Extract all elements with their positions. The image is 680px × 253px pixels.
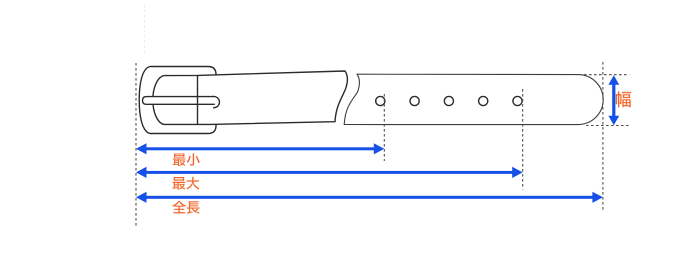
dotted guide line belt top edge (584, 74, 629, 76)
belt hole 5 (513, 96, 522, 105)
label 最大 (maximum) (173, 177, 200, 190)
belt hole 1 (376, 96, 385, 105)
dotted guide line belt bottom edge (586, 125, 629, 127)
belt hole 3 (444, 96, 453, 105)
dotted guide line at belt tip (602, 62, 604, 210)
buckle prong curled tip (213, 96, 220, 107)
dimension arrow minimum (saishou) (136, 143, 384, 154)
buckle center bar (197, 75, 199, 124)
dimension arrow maximum (saidai) (136, 167, 523, 178)
label 幅 (width) (616, 91, 631, 107)
dotted guide line left (buckle end) (135, 63, 137, 227)
dotted guide line at last hole (522, 89, 524, 190)
buckle prong (143, 97, 215, 105)
label 最小 (minimum) (173, 153, 200, 166)
faint dotted guide line top (144, 5, 146, 53)
belt hole 2 (410, 96, 419, 105)
dotted guide line at first hole (383, 94, 385, 161)
belt strap right section with rounded tip (344, 74, 603, 124)
dimension arrow width (haba) (608, 75, 619, 125)
belt hole 4 (479, 96, 488, 105)
belt buckle outer frame (139, 67, 216, 134)
label 全長 (total length) (172, 201, 199, 214)
dimension arrow total length (zenchou) (136, 192, 603, 203)
belt strap left section with fold around buckle bar (153, 71, 348, 124)
